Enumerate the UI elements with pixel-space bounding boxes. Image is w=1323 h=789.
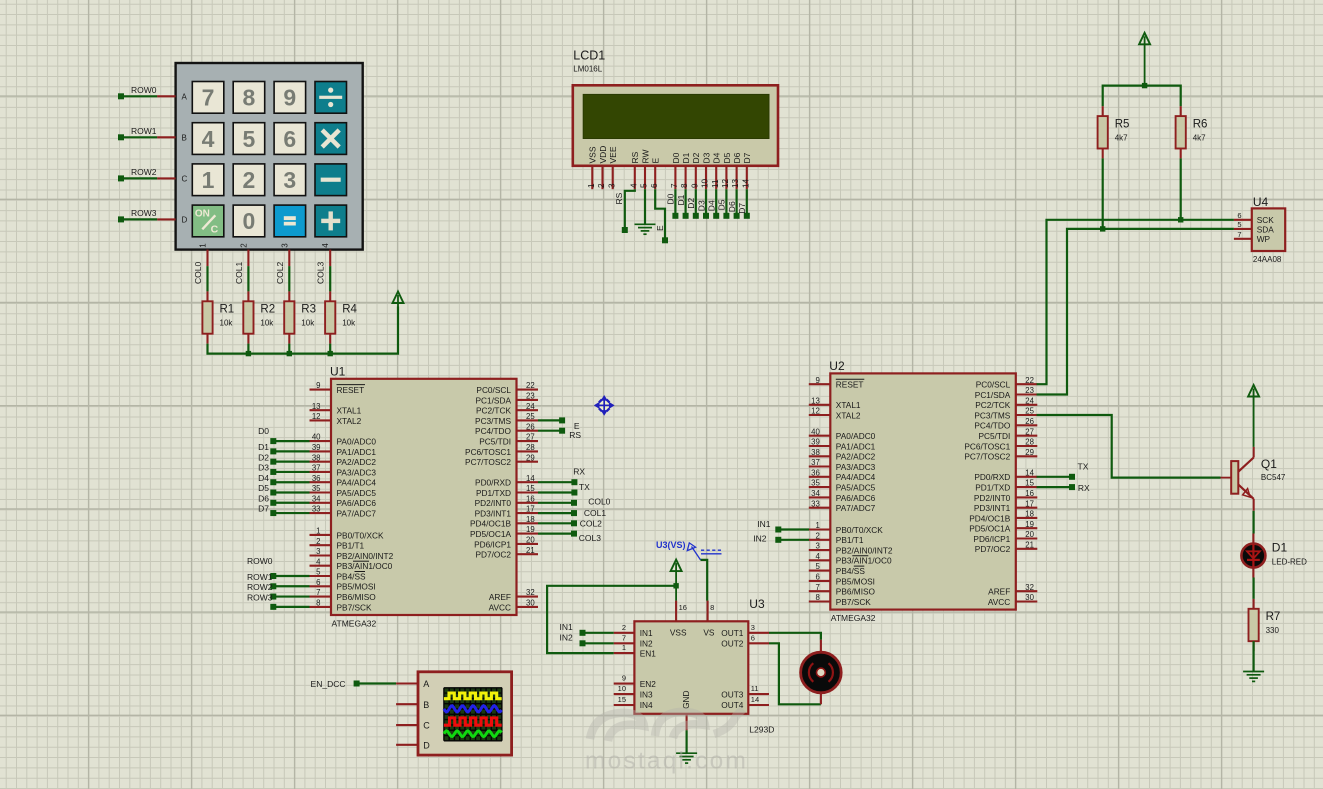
U2 pin 22 PC0/SCL xyxy=(1016,383,1038,385)
svg-text:PC4/TDO: PC4/TDO xyxy=(974,421,1011,431)
svg-text:2: 2 xyxy=(597,183,606,188)
svg-text:28: 28 xyxy=(526,443,535,452)
svg-text:PC5/TDI: PC5/TDI xyxy=(479,437,511,447)
wire U3 OUT2 to motor bottom xyxy=(769,643,821,704)
U1 pin 24 PC2/TCK xyxy=(517,409,539,411)
svg-text:C: C xyxy=(182,174,188,183)
wire R6 bottom to SCK rail xyxy=(1180,158,1182,219)
svg-text:RS: RS xyxy=(630,151,640,163)
U3 pin 8 VS xyxy=(707,601,709,622)
terminal D1 xyxy=(683,213,689,219)
svg-text:4: 4 xyxy=(815,552,820,561)
U3 pin 9 EN2 xyxy=(614,683,635,685)
keypad key mul xyxy=(315,123,347,155)
U1 pin 28 PC6/TOSC1 xyxy=(517,450,539,452)
U3 pin 2 IN1 xyxy=(614,632,635,634)
U2 pin 2 PB1/T1 xyxy=(809,539,831,541)
svg-text:R6: R6 xyxy=(1193,118,1208,130)
svg-text:PB2/AIN0/INT2: PB2/AIN0/INT2 xyxy=(836,546,893,556)
svg-text:2: 2 xyxy=(316,537,320,546)
terminal ROW0 xyxy=(118,93,124,99)
svg-text:PC4/TDO: PC4/TDO xyxy=(475,426,512,436)
wire net EN_DCC to scope pin A xyxy=(357,682,397,684)
terminal E xyxy=(662,237,668,243)
svg-text:PD7/OC2: PD7/OC2 xyxy=(475,550,511,560)
U1 pin 37 PA3/ADC3 xyxy=(310,471,332,473)
svg-text:27: 27 xyxy=(1025,427,1034,436)
svg-text:OUT1: OUT1 xyxy=(721,628,744,638)
svg-text:3: 3 xyxy=(815,542,819,551)
svg-text:7: 7 xyxy=(815,583,819,592)
terminal D2 xyxy=(270,459,276,465)
wire D1 to R7 xyxy=(1252,578,1254,599)
U1 pin 14 PD0/RXD xyxy=(517,481,539,483)
svg-text:10k: 10k xyxy=(342,319,356,328)
svg-text:XTAL2: XTAL2 xyxy=(337,416,362,426)
svg-text:U4: U4 xyxy=(1253,195,1269,209)
U1 pin 17 PD3/INT1 xyxy=(517,512,539,514)
U1 pin 40 PA0/ADC0 xyxy=(310,440,332,442)
keypad pin 4 (column) xyxy=(329,250,331,267)
wire pull-up bus below R1-R4 xyxy=(208,307,399,354)
keypad key plus xyxy=(315,205,347,237)
svg-text:PD3/INT1: PD3/INT1 xyxy=(974,503,1011,513)
svg-text:10k: 10k xyxy=(301,319,315,328)
svg-text:PD7/OC2: PD7/OC2 xyxy=(975,544,1011,554)
LCD pin 4 RS xyxy=(634,166,636,189)
U1 pin 39 PA1/ADC1 xyxy=(310,450,332,452)
svg-text:PC1/SDA: PC1/SDA xyxy=(475,395,511,405)
svg-text:8: 8 xyxy=(316,599,320,608)
U1 pin 19 PD5/OC1A xyxy=(517,533,539,535)
svg-text:36: 36 xyxy=(811,468,820,477)
svg-text:COL2: COL2 xyxy=(275,262,285,284)
svg-text:21: 21 xyxy=(1025,540,1034,549)
svg-text:29: 29 xyxy=(526,453,535,462)
resistor R4 10k xyxy=(329,291,331,301)
svg-text:EN1: EN1 xyxy=(640,648,657,658)
LCD pin 2 VDD xyxy=(601,166,603,189)
LCD pin 3 VEE xyxy=(612,166,614,189)
svg-text:D5: D5 xyxy=(717,199,727,210)
resistor R3 10k xyxy=(288,291,290,301)
keypad key 4 xyxy=(192,123,224,155)
svg-text:AVCC: AVCC xyxy=(489,602,511,612)
U1 pin 9 RESET xyxy=(310,389,332,391)
svg-text:ROW2: ROW2 xyxy=(247,582,273,592)
U4 pin 6 SCK xyxy=(1234,219,1252,221)
svg-text:IN1: IN1 xyxy=(559,622,573,632)
keypad pin A xyxy=(157,95,176,97)
U1 pin 15 PD1/TXD xyxy=(517,491,539,493)
svg-text:7: 7 xyxy=(316,588,320,597)
wire net D6 to U1 PA6 xyxy=(273,502,309,504)
U1 pin 27 PC5/TDI xyxy=(517,440,539,442)
svg-text:D7: D7 xyxy=(258,504,269,514)
LCD pin 11 D4 xyxy=(715,166,717,189)
svg-text:IN4: IN4 xyxy=(640,700,653,710)
svg-text:AREF: AREF xyxy=(988,587,1010,597)
resistor R2 10k xyxy=(247,291,249,301)
terminal IN2 (U3) xyxy=(580,640,586,646)
U1 pin 32 AREF xyxy=(517,596,539,598)
svg-text:15: 15 xyxy=(1025,479,1034,488)
svg-text:D7: D7 xyxy=(737,203,747,214)
svg-text:C: C xyxy=(211,224,219,236)
wire net IN1 to U3 pin 2 xyxy=(583,632,614,634)
U2 pin 35 PA5/ADC5 xyxy=(809,486,831,488)
wire net TX from U2 PD0 xyxy=(1037,476,1072,478)
svg-text:PB6/MISO: PB6/MISO xyxy=(337,592,377,602)
terminal COL0 (U1) xyxy=(571,500,577,506)
U1 pin 36 PA4/ADC4 xyxy=(310,481,332,483)
origin marker (blue move-cursor) xyxy=(595,397,613,415)
U1 pin 22 PC0/SCL xyxy=(517,389,539,391)
terminal RS xyxy=(622,227,628,233)
svg-text:RW: RW xyxy=(640,149,650,163)
svg-text:2: 2 xyxy=(622,623,626,632)
watermark xyxy=(590,709,743,741)
svg-text:1: 1 xyxy=(199,243,208,248)
wire net SCL: U2 PC0 pin 22 up to SCK rail xyxy=(1037,220,1234,384)
svg-text:PD2/INT0: PD2/INT0 xyxy=(475,498,512,508)
svg-text:11: 11 xyxy=(711,179,720,188)
svg-text:11: 11 xyxy=(751,684,759,693)
wire net D2 to U1 PA2 xyxy=(273,461,309,463)
svg-text:1: 1 xyxy=(587,183,596,188)
svg-text:3: 3 xyxy=(280,243,289,248)
svg-text:3: 3 xyxy=(283,167,296,193)
svg-text:D2: D2 xyxy=(691,152,701,163)
power symbol (I2C pull-ups) xyxy=(1139,33,1150,45)
svg-text:3: 3 xyxy=(751,623,755,632)
svg-text:OUT3: OUT3 xyxy=(721,689,744,699)
svg-text:4: 4 xyxy=(321,243,330,248)
svg-text:PB0/T0/XCK: PB0/T0/XCK xyxy=(836,525,884,535)
svg-text:32: 32 xyxy=(526,588,535,597)
svg-text:D4: D4 xyxy=(707,200,717,211)
svg-text:6: 6 xyxy=(815,573,819,582)
U2 pin 15 PD1/TXD xyxy=(1016,486,1038,488)
svg-text:PB1/T1: PB1/T1 xyxy=(337,541,365,551)
terminal COL3 (U1) xyxy=(571,531,577,537)
wire net ROW1 to U1 PB5 xyxy=(273,585,309,587)
svg-text:PC7/TOSC2: PC7/TOSC2 xyxy=(964,452,1010,462)
terminal ROW1 xyxy=(118,134,124,140)
ground (R7) xyxy=(1243,672,1264,682)
LCD pin 14 D7 xyxy=(746,166,748,189)
svg-text:2: 2 xyxy=(243,167,256,193)
svg-text:PA7/ADC7: PA7/ADC7 xyxy=(337,509,377,519)
terminal D6 xyxy=(734,213,740,219)
svg-text:R7: R7 xyxy=(1266,611,1281,623)
wire Q1 emitter to D1 xyxy=(1252,511,1254,534)
svg-text:D1: D1 xyxy=(258,442,269,452)
svg-text:7: 7 xyxy=(1237,230,1241,239)
U2 pin 32 AREF xyxy=(1016,590,1038,592)
wire net ROW2 to U1 PB6 xyxy=(273,595,309,597)
svg-text:RS: RS xyxy=(569,430,581,440)
svg-text:27: 27 xyxy=(526,433,535,442)
svg-text:D2: D2 xyxy=(686,198,696,209)
svg-text:32: 32 xyxy=(1025,583,1034,592)
svg-text:29: 29 xyxy=(1025,448,1034,457)
scope pin C xyxy=(396,724,418,726)
svg-text:U3: U3 xyxy=(749,597,765,611)
wire net E from LCD pin 6 xyxy=(655,189,665,240)
junction power rail xyxy=(1142,83,1147,88)
svg-text:PA5/ADC5: PA5/ADC5 xyxy=(836,483,876,493)
svg-text:PA5/ADC5: PA5/ADC5 xyxy=(337,488,377,498)
svg-text:PD2/INT0: PD2/INT0 xyxy=(974,493,1011,503)
motor driver U3 L293D body xyxy=(634,621,748,714)
svg-text:34: 34 xyxy=(312,494,321,503)
svg-text:OUT2: OUT2 xyxy=(721,639,744,649)
svg-text:38: 38 xyxy=(312,453,321,462)
terminal IN1 (U3) xyxy=(580,630,586,636)
U1 pin 6 PB5/MOSI xyxy=(310,585,332,587)
U1 pin 38 PA2/ADC2 xyxy=(310,461,332,463)
U3 pin 14 OUT4 xyxy=(748,704,769,706)
U2 pin 21 PD7/OC2 xyxy=(1016,548,1038,550)
wire R5 bottom to SDA rail xyxy=(1102,158,1104,229)
svg-text:PB7/SCK: PB7/SCK xyxy=(836,597,872,607)
U2 pin 37 PA3/ADC3 xyxy=(809,465,831,467)
svg-text:COL3: COL3 xyxy=(316,262,326,284)
svg-text:20: 20 xyxy=(526,536,535,545)
svg-text:PA7/ADC7: PA7/ADC7 xyxy=(836,503,876,513)
svg-text:12: 12 xyxy=(811,407,820,416)
svg-text:PA6/ADC6: PA6/ADC6 xyxy=(337,498,377,508)
terminal ROW3 (U1) xyxy=(270,604,276,610)
svg-text:0: 0 xyxy=(243,208,256,234)
keypad pin 1 (column) xyxy=(206,250,208,267)
svg-text:RS: RS xyxy=(614,192,624,204)
svg-text:5: 5 xyxy=(640,183,649,188)
svg-text:4: 4 xyxy=(202,126,215,152)
U3 pin 7 IN2 xyxy=(614,642,635,644)
svg-text:D1: D1 xyxy=(1272,541,1288,555)
terminal E (U1) xyxy=(559,417,565,423)
wire LCD RW to ground xyxy=(644,189,646,224)
U1 pin 18 PD4/OC1B xyxy=(517,522,539,524)
svg-text:26: 26 xyxy=(1025,417,1034,426)
svg-text:PB3/AIN1/OC0: PB3/AIN1/OC0 xyxy=(337,561,393,571)
svg-text:R1: R1 xyxy=(220,304,235,316)
svg-text:6: 6 xyxy=(283,126,296,152)
svg-text:15: 15 xyxy=(618,695,626,704)
svg-text:9: 9 xyxy=(316,381,320,390)
U3 pin 16 VSS xyxy=(675,601,677,622)
terminal D2 xyxy=(693,213,699,219)
junction R6/SCK xyxy=(1178,217,1183,222)
svg-text:RESET: RESET xyxy=(337,385,365,395)
svg-text:25: 25 xyxy=(526,412,535,421)
wire net D7 to U1 PA7 xyxy=(273,512,309,514)
wire net D4 to U1 PA4 xyxy=(273,481,309,483)
svg-text:7: 7 xyxy=(622,633,626,642)
svg-text:PD4/OC1B: PD4/OC1B xyxy=(969,513,1011,523)
svg-text:36: 36 xyxy=(312,474,321,483)
U3 pin 3 OUT1 xyxy=(748,632,769,634)
svg-text:PD5/OC1A: PD5/OC1A xyxy=(470,529,512,539)
U1 pin 26 PC4/TDO xyxy=(517,430,539,432)
scope screen xyxy=(444,688,502,741)
svg-text:21: 21 xyxy=(526,546,535,555)
svg-text:10k: 10k xyxy=(220,319,234,328)
svg-text:Q1: Q1 xyxy=(1261,457,1277,471)
U2 pin 13 XTAL1 xyxy=(809,404,831,406)
terminal ROW1 (U1) xyxy=(270,583,276,589)
wire xyxy=(288,344,290,354)
svg-text:38: 38 xyxy=(811,448,820,457)
svg-text:13: 13 xyxy=(731,178,740,188)
keypad key 3 xyxy=(274,164,306,196)
U2 pin 25 PC3/TMS xyxy=(1016,414,1038,416)
svg-text:D3: D3 xyxy=(696,200,706,211)
terminal COL1 (U1) xyxy=(571,510,577,516)
svg-text:PD4/OC1B: PD4/OC1B xyxy=(470,519,512,529)
svg-text:U1: U1 xyxy=(330,365,346,379)
svg-text:16: 16 xyxy=(679,603,687,612)
svg-text:ROW1: ROW1 xyxy=(131,126,157,136)
junction EN1/VSS xyxy=(673,583,678,588)
svg-text:ROW1: ROW1 xyxy=(247,572,273,582)
U2 pin 30 AVCC xyxy=(1016,600,1038,602)
svg-text:PC6/TOSC1: PC6/TOSC1 xyxy=(465,447,511,457)
svg-text:330: 330 xyxy=(1266,626,1280,635)
wire net COL0 from U1 PD2 xyxy=(538,502,574,504)
keypad key 7 xyxy=(192,82,224,114)
keypad key 5 xyxy=(233,123,265,155)
svg-text:26: 26 xyxy=(526,422,535,431)
signal source body (4-channel) xyxy=(418,672,512,755)
svg-text:PD5/OC1A: PD5/OC1A xyxy=(969,524,1011,534)
junction xyxy=(246,351,251,356)
svg-text:33: 33 xyxy=(312,505,321,514)
terminal D0 xyxy=(672,213,678,219)
svg-text:39: 39 xyxy=(811,438,820,447)
svg-text:3: 3 xyxy=(607,183,616,188)
LCD pin 12 D5 xyxy=(725,166,727,189)
junction xyxy=(328,351,333,356)
terminal TX (U2) xyxy=(1069,474,1075,480)
svg-text:E: E xyxy=(651,158,661,164)
svg-text:RX: RX xyxy=(573,466,585,476)
wire net D6 from LCD pin 13 xyxy=(735,189,737,216)
svg-text:30: 30 xyxy=(526,599,535,608)
svg-text:IN1: IN1 xyxy=(757,519,771,529)
U2 pin 24 PC2/TCK xyxy=(1016,404,1038,406)
keypad pin D xyxy=(157,218,176,220)
wire xyxy=(329,344,331,354)
EEPROM U4 24AA08 body xyxy=(1252,208,1285,251)
svg-text:TX: TX xyxy=(579,482,590,492)
svg-text:COL1: COL1 xyxy=(584,508,606,518)
svg-text:D2: D2 xyxy=(258,452,269,462)
wire net COL3 keypad to R4 xyxy=(329,266,331,291)
svg-text:D5: D5 xyxy=(258,483,269,493)
U3 GND pin (rotated label) xyxy=(686,714,688,731)
svg-text:ON: ON xyxy=(195,209,210,220)
svg-text:D0: D0 xyxy=(671,152,681,163)
svg-text:8: 8 xyxy=(680,183,689,188)
terminal RX (U2) xyxy=(1069,484,1075,490)
svg-text:8: 8 xyxy=(815,593,819,602)
svg-text:ATMEGA32: ATMEGA32 xyxy=(831,613,876,623)
svg-text:23: 23 xyxy=(526,392,535,401)
svg-text:33: 33 xyxy=(811,499,820,508)
U4 pin 5 SDA xyxy=(1234,228,1252,230)
svg-text:16: 16 xyxy=(526,494,535,503)
svg-text:D: D xyxy=(423,740,430,750)
svg-text:PB4/SS: PB4/SS xyxy=(836,566,866,576)
svg-text:PB0/T0/XCK: PB0/T0/XCK xyxy=(337,530,385,540)
U1 pin 23 PC1/SDA xyxy=(517,399,539,401)
U1 pin 20 PD6/ICP1 xyxy=(517,543,539,545)
wire net ROW3 to U1 PB7 xyxy=(273,606,309,608)
U3 pin 11 OUT3 xyxy=(748,693,769,695)
wire net COL1 keypad to R2 xyxy=(247,266,249,291)
svg-text:10k: 10k xyxy=(260,319,274,328)
svg-text:ROW0: ROW0 xyxy=(131,85,157,95)
svg-text:12: 12 xyxy=(312,412,321,421)
wire net SDA: U2 PC1 pin 23 up to SDA rail xyxy=(1037,229,1234,395)
svg-text:PB7/SCK: PB7/SCK xyxy=(337,602,373,612)
scope trace B (blue sine) xyxy=(444,706,502,712)
svg-text:24: 24 xyxy=(1025,396,1034,405)
wire net COL3 from U1 PD5 xyxy=(538,532,574,534)
svg-text:PA2/ADC2: PA2/ADC2 xyxy=(836,452,876,462)
wire net ROW3 to keypad xyxy=(121,218,157,220)
svg-text:40: 40 xyxy=(811,427,820,436)
U2 pin 26 PC4/TDO xyxy=(1016,424,1038,426)
svg-text:PA0/ADC0: PA0/ADC0 xyxy=(836,431,876,441)
terminal TX (U1) xyxy=(571,490,577,496)
svg-text:4: 4 xyxy=(629,183,638,188)
terminal D4 xyxy=(713,213,719,219)
svg-text:9: 9 xyxy=(283,85,296,111)
scope trace A (yellow square) xyxy=(444,693,502,699)
wire net IN2 to U2 PB1 xyxy=(778,539,809,541)
svg-text:mostaql.com: mostaql.com xyxy=(585,748,748,775)
svg-text:COL3: COL3 xyxy=(579,533,601,543)
D1 cathode pin xyxy=(1252,567,1254,578)
junction xyxy=(287,351,292,356)
scope trace C (red square) xyxy=(444,718,502,725)
scope trace D (green sine) xyxy=(444,731,502,737)
svg-text:ROW3: ROW3 xyxy=(247,592,273,602)
terminal D0 xyxy=(270,438,276,444)
svg-text:14: 14 xyxy=(741,178,750,188)
wire net IN1 to U2 PB0 xyxy=(778,528,809,530)
svg-text:XTAL1: XTAL1 xyxy=(337,406,362,416)
power symbol (Q1 collector) xyxy=(1248,385,1259,397)
svg-text:19: 19 xyxy=(1025,520,1034,529)
svg-text:ROW2: ROW2 xyxy=(131,167,157,177)
U2 pin 33 PA7/ADC7 xyxy=(809,507,831,509)
svg-text:D0: D0 xyxy=(666,193,676,204)
svg-text:D5: D5 xyxy=(722,152,732,163)
svg-text:COL2: COL2 xyxy=(580,518,602,528)
wire net IN2 to U3 pin 7 xyxy=(583,642,614,644)
svg-text:6: 6 xyxy=(1237,211,1241,220)
resistor R5 4k7 xyxy=(1102,106,1104,116)
svg-text:IN3: IN3 xyxy=(640,689,653,699)
svg-text:PC3/TMS: PC3/TMS xyxy=(974,410,1010,420)
svg-text:37: 37 xyxy=(312,464,321,473)
svg-text:R4: R4 xyxy=(342,304,357,316)
